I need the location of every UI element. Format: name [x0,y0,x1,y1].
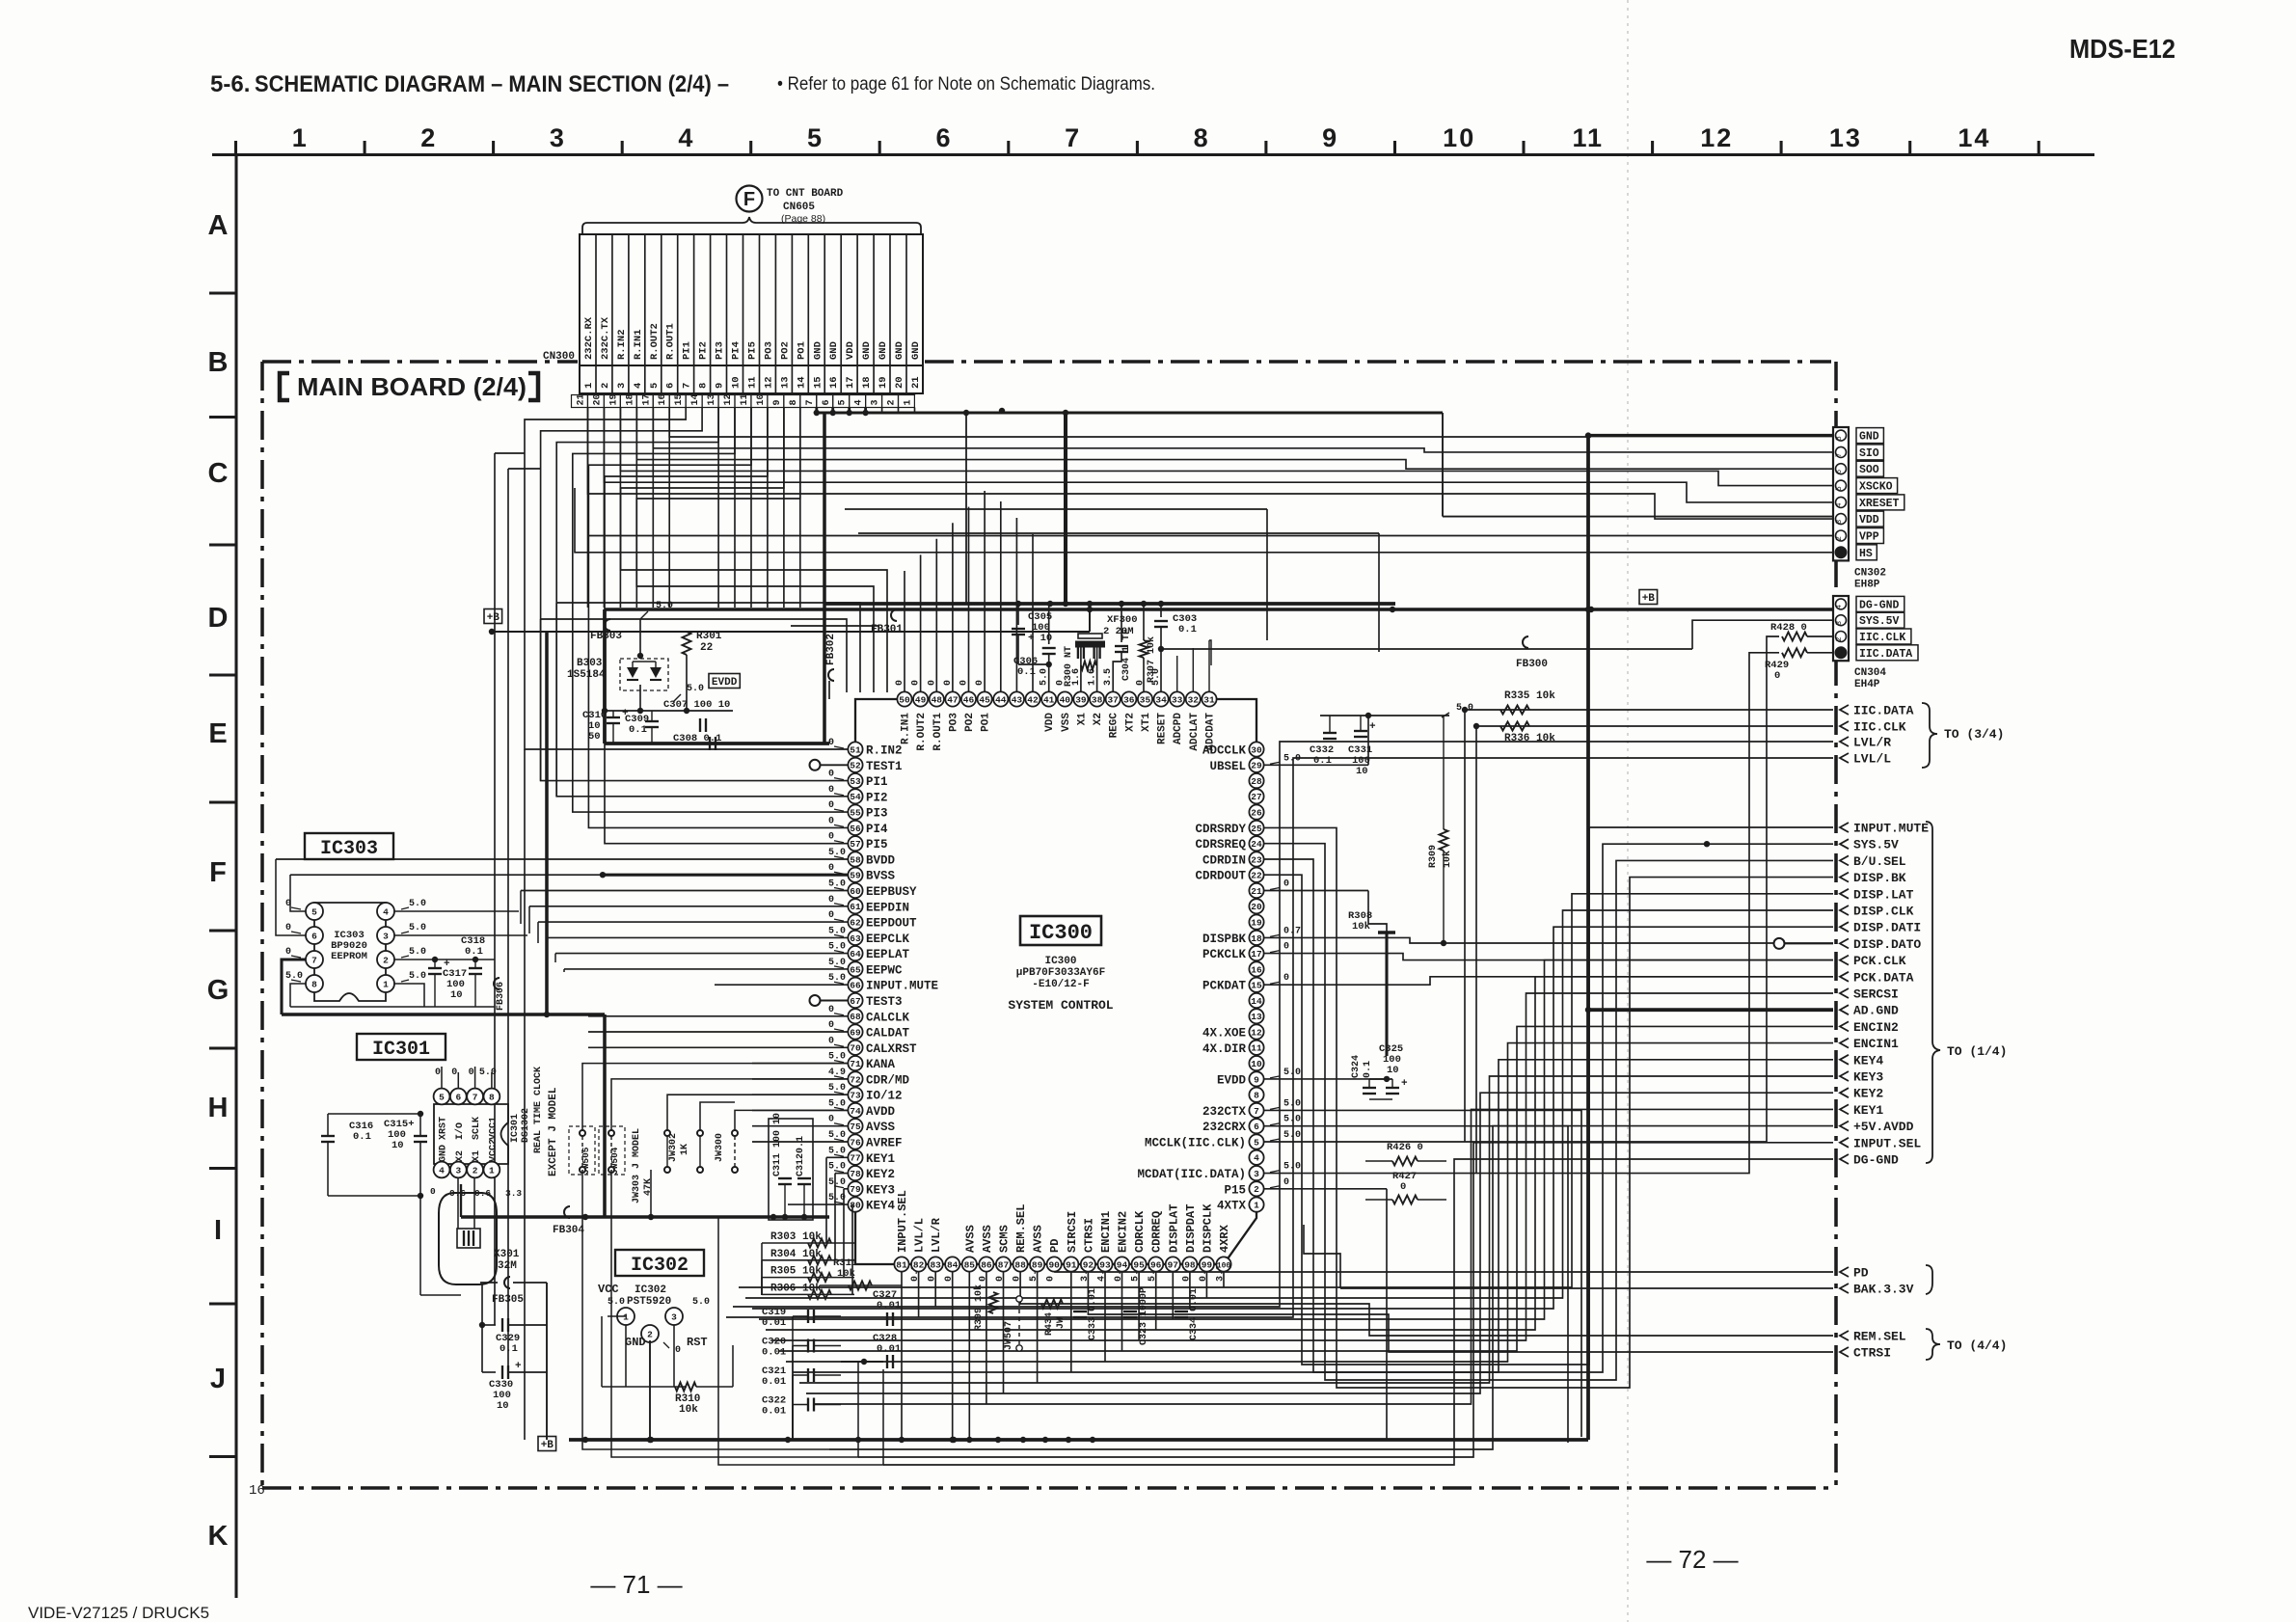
svg-text:71: 71 [850,1059,861,1069]
svg-text:UBSEL: UBSEL [1209,760,1246,773]
svg-text:0: 0 [828,910,834,921]
svg-text:C312: C312 [796,1153,806,1176]
svg-text:CALXRST: CALXRST [866,1042,917,1056]
svg-text:C311 100 10: C311 100 10 [772,1113,783,1176]
svg-text:7: 7 [1835,452,1844,457]
svg-text:4X.XOE: 4X.XOE [1202,1027,1246,1041]
svg-text:CDRCLK: CDRCLK [1133,1210,1147,1253]
svg-text:+: + [515,1361,522,1372]
svg-text:17: 17 [845,376,856,389]
svg-text:42: 42 [1027,694,1039,705]
svg-text:59: 59 [850,871,861,881]
svg-text:PI1: PI1 [866,775,888,789]
svg-text:VDD: VDD [1859,514,1879,527]
svg-text:7: 7 [1254,1106,1259,1117]
svg-text:GND: GND [1859,431,1879,444]
svg-text:83: 83 [930,1259,941,1270]
svg-text:AD.GND: AD.GND [1853,1004,1899,1018]
svg-text:PCKCLK: PCKCLK [1202,948,1247,961]
svg-text:0.1: 0.1 [629,724,647,736]
svg-text:26: 26 [1251,808,1262,819]
svg-text:— 71 —: — 71 — [590,1570,682,1599]
svg-text:21: 21 [1251,886,1262,897]
svg-text:R399 10k: R399 10k [973,1284,985,1331]
svg-text:14: 14 [1251,996,1262,1007]
svg-text:21: 21 [910,376,922,389]
svg-text:XRST: XRST [439,1117,449,1140]
svg-text:DISPDAT: DISPDAT [1184,1204,1198,1253]
svg-text:10: 10 [1443,123,1475,152]
svg-text:38: 38 [1092,694,1103,705]
svg-text:0: 0 [469,1068,474,1078]
svg-text:DG-GND: DG-GND [1853,1153,1899,1168]
svg-text:19: 19 [608,393,619,405]
svg-text:51: 51 [850,744,861,755]
svg-text:0: 0 [285,923,291,933]
svg-text:B: B [208,347,229,378]
svg-text:4XTX: 4XTX [1217,1200,1247,1213]
svg-text:10: 10 [731,376,743,389]
svg-text:3: 3 [1835,621,1844,626]
svg-text:12: 12 [1700,123,1733,152]
svg-text:INPUT.SEL: INPUT.SEL [896,1190,909,1253]
svg-text:+5V.AVDD: +5V.AVDD [1853,1120,1914,1134]
svg-text:EEPLAT: EEPLAT [866,948,910,961]
svg-text:EEPDIN: EEPDIN [866,901,909,914]
svg-text:49: 49 [915,694,927,705]
svg-text:76: 76 [850,1137,861,1148]
svg-text:18: 18 [861,376,873,389]
svg-text:VCC1: VCC1 [488,1117,499,1140]
svg-text:0: 0 [1774,670,1780,682]
svg-text:16: 16 [828,376,840,389]
svg-text:4: 4 [678,123,694,152]
svg-text:0: 0 [430,1186,436,1197]
svg-text:IC301: IC301 [510,1114,521,1143]
svg-text:R.OUT2: R.OUT2 [649,323,661,360]
svg-text:+: + [1401,1078,1408,1090]
svg-text:0: 0 [828,1005,834,1015]
svg-text:R309: R309 [1428,845,1439,868]
svg-text:KEY2: KEY2 [866,1168,895,1181]
svg-text:C304 1 TF: C304 1 TF [1121,629,1132,681]
svg-text:EEPWC: EEPWC [866,963,903,977]
svg-text:J: J [210,1364,226,1394]
svg-text:2: 2 [1835,636,1844,641]
svg-text:INPUT.MUTE: INPUT.MUTE [866,980,938,993]
svg-text:5.0: 5.0 [656,601,673,611]
svg-text:88: 88 [1014,1259,1026,1270]
svg-text:19: 19 [1251,918,1262,929]
svg-text:+: + [1369,721,1376,733]
svg-text:IC302: IC302 [631,1255,689,1277]
svg-text:KEY1: KEY1 [866,1152,895,1166]
svg-text:0.01: 0.01 [762,1347,786,1359]
svg-text:AVSS: AVSS [981,1225,994,1253]
svg-text:PO1: PO1 [796,341,807,360]
svg-text:IC303: IC303 [320,838,378,860]
svg-text:GND: GND [625,1336,646,1349]
svg-text:INPUT.SEL: INPUT.SEL [1853,1136,1921,1150]
svg-text:PO1: PO1 [981,713,992,732]
svg-text:0: 0 [828,1115,834,1125]
svg-text:0: 0 [1400,1181,1406,1193]
svg-text:VDD: VDD [845,341,856,360]
svg-text:5: 5 [439,1092,445,1102]
svg-text:14: 14 [690,393,701,405]
svg-text:TO CNT BOARD: TO CNT BOARD [767,188,844,200]
svg-text:PD: PD [1048,1239,1062,1253]
svg-text:ENCIN2: ENCIN2 [1853,1020,1899,1035]
svg-text:R336 10k: R336 10k [1504,733,1555,744]
svg-text:LVL/R: LVL/R [1853,736,1891,750]
svg-text:KEY1: KEY1 [1853,1103,1883,1118]
svg-text:FB302: FB302 [825,634,837,665]
svg-text:50: 50 [899,694,910,705]
svg-text:8: 8 [311,979,317,989]
svg-text:14: 14 [796,376,807,389]
svg-text:7: 7 [682,383,693,389]
svg-text:INPUT.MUTE: INPUT.MUTE [1853,822,1929,836]
svg-text:33: 33 [1172,694,1183,705]
svg-text:REM.SEL: REM.SEL [1014,1204,1028,1253]
svg-text:K: K [208,1521,229,1552]
svg-text:SCMS: SCMS [998,1225,1012,1253]
svg-text:1: 1 [623,1311,629,1322]
svg-text:CDR/MD: CDR/MD [866,1073,910,1087]
svg-text:5.0: 5.0 [409,947,426,958]
svg-text:EVDD: EVDD [712,677,738,689]
svg-text:MDS-E12: MDS-E12 [2069,34,2175,64]
svg-text:IIC.DATA: IIC.DATA [1853,704,1914,718]
svg-text:AVSS: AVSS [866,1121,896,1134]
svg-text:IIC.DATA: IIC.DATA [1859,648,1912,661]
svg-text:JW: JW [1056,1317,1067,1329]
svg-text:3: 3 [671,1311,677,1322]
svg-text:5.0: 5.0 [1283,1068,1301,1078]
svg-text:KEY2: KEY2 [1853,1087,1883,1101]
svg-text:2: 2 [600,383,611,389]
svg-text:8: 8 [1254,1091,1259,1101]
svg-text:EEPCLK: EEPCLK [866,933,910,946]
svg-text:0.1: 0.1 [465,946,483,958]
svg-text:EH4P: EH4P [1854,679,1880,690]
svg-text:12: 12 [1251,1027,1262,1038]
svg-text:DISPBK: DISPBK [1202,933,1247,946]
svg-text:10: 10 [1356,766,1368,777]
svg-text:C: C [208,458,229,489]
svg-text:JW507: JW507 [1004,1321,1014,1350]
svg-text:4X.DIR: 4X.DIR [1202,1042,1247,1056]
svg-text:46: 46 [963,694,975,705]
svg-text:79: 79 [850,1184,861,1195]
svg-text:12: 12 [763,376,774,389]
svg-text:5.0: 5.0 [1283,1115,1301,1125]
svg-text:PI4: PI4 [866,823,888,836]
svg-text:FB305: FB305 [492,1294,524,1306]
svg-text:DISP.DATI: DISP.DATI [1853,921,1921,935]
svg-text:5.0: 5.0 [1283,1162,1301,1173]
svg-text:F: F [209,857,227,888]
svg-text:91: 91 [1066,1259,1077,1270]
svg-text:GND: GND [828,341,840,360]
svg-text:8: 8 [698,383,710,389]
svg-text:10k: 10k [679,1404,698,1416]
svg-text:47K: 47K [643,1178,654,1196]
svg-text:97: 97 [1168,1259,1179,1270]
svg-text:PO2: PO2 [964,713,976,732]
svg-text:BAK.3.3V: BAK.3.3V [1853,1283,1914,1297]
svg-text:37: 37 [1107,694,1119,705]
svg-text:4: 4 [633,383,644,389]
svg-text:0: 0 [828,770,834,780]
svg-text:81: 81 [896,1259,907,1270]
svg-text:TO (3/4): TO (3/4) [1944,727,2004,742]
svg-text:1: 1 [383,979,389,989]
svg-text:X2: X2 [1093,713,1104,725]
svg-text:R300 NT: R300 NT [1064,646,1074,687]
svg-text:KEY4: KEY4 [1853,1053,1883,1068]
svg-text:21: 21 [577,393,587,405]
svg-text:36: 36 [1123,694,1135,705]
svg-text:5.0: 5.0 [409,923,426,933]
svg-text:+B: +B [487,612,500,624]
svg-text:(Page 88): (Page 88) [781,213,825,225]
svg-text:95: 95 [1133,1259,1145,1270]
svg-text:82: 82 [913,1259,925,1270]
svg-text:EH8P: EH8P [1854,579,1880,590]
svg-text:PO3: PO3 [948,713,959,732]
svg-text:KEY3: KEY3 [866,1183,895,1197]
svg-text:SIRCSI: SIRCSI [1066,1211,1079,1253]
svg-text:8: 8 [1194,123,1210,152]
svg-text:CDRSRDY: CDRSRDY [1195,823,1246,836]
svg-text:5: 5 [311,906,317,917]
svg-text:15: 15 [674,393,685,405]
svg-text:9: 9 [715,383,726,389]
svg-text:73: 73 [850,1091,861,1101]
svg-text:DISPLAT: DISPLAT [1167,1204,1180,1253]
svg-text:66: 66 [850,981,861,991]
svg-text:0: 0 [828,816,834,826]
svg-text:DG-GND: DG-GND [1859,599,1900,611]
svg-text:70: 70 [850,1043,861,1054]
svg-text:0: 0 [451,1068,457,1078]
svg-text:8: 8 [1835,436,1844,441]
svg-text:CDRSREQ: CDRSREQ [1195,838,1246,852]
svg-text:TO (4/4): TO (4/4) [1947,1338,2007,1353]
svg-text:RST: RST [687,1336,708,1349]
svg-text:GND: GND [894,341,905,360]
svg-text:0: 0 [675,1345,681,1356]
svg-text:CN304: CN304 [1854,667,1886,679]
svg-text:IIC.CLK: IIC.CLK [1853,720,1906,735]
svg-text:40: 40 [1060,694,1071,705]
svg-text:232CTX: 232CTX [1202,1105,1247,1119]
svg-text:XRESET: XRESET [1859,498,1900,510]
svg-text:2: 2 [1835,536,1844,541]
svg-text:57: 57 [850,839,861,850]
svg-text:ADCPD: ADCPD [1173,713,1184,744]
svg-text:18: 18 [625,393,635,405]
svg-text:CALDAT: CALDAT [866,1027,910,1041]
svg-text:63: 63 [850,933,861,944]
svg-text:R.IN2: R.IN2 [866,744,903,758]
svg-text:0.1: 0.1 [1363,1061,1373,1078]
svg-text:16: 16 [1251,964,1262,975]
svg-text:2: 2 [383,955,389,965]
svg-text:30: 30 [1251,744,1262,755]
svg-text:SYS.5V: SYS.5V [1859,615,1900,628]
svg-text:10: 10 [392,1140,404,1151]
svg-text:PCK.CLK: PCK.CLK [1853,954,1906,968]
svg-text:CTRSI: CTRSI [1082,1218,1095,1253]
svg-text:GND: GND [910,341,922,360]
svg-text:7: 7 [473,1092,478,1102]
svg-text:AVSS: AVSS [963,1225,977,1253]
svg-text:5: 5 [807,123,824,152]
svg-text:53: 53 [850,776,861,787]
svg-text:19: 19 [878,376,889,389]
svg-text:R301: R301 [696,631,722,642]
svg-text:SOO: SOO [1859,464,1879,476]
svg-text:15: 15 [812,376,824,389]
svg-text:5.0: 5.0 [1283,1098,1301,1109]
svg-text:5.0: 5.0 [692,1297,710,1308]
svg-text:3: 3 [1254,1169,1259,1179]
svg-text:232CRX: 232CRX [1202,1121,1247,1134]
svg-text:0: 0 [1283,1177,1289,1188]
svg-text:3: 3 [616,383,628,389]
svg-text:32M: 32M [498,1260,517,1272]
svg-text:EEPDOUT: EEPDOUT [866,917,917,931]
svg-text:10k: 10k [837,1268,855,1280]
svg-text:PST5920: PST5920 [627,1296,671,1308]
svg-text:PI2: PI2 [698,341,710,360]
svg-text:5.0: 5.0 [409,971,426,982]
svg-text:48: 48 [932,694,943,705]
svg-text:G: G [207,975,230,1006]
svg-text:0.1: 0.1 [796,1136,806,1153]
svg-text:9: 9 [772,399,783,405]
svg-text:F: F [743,189,755,210]
svg-text:96: 96 [1150,1259,1162,1270]
svg-text:22: 22 [1251,871,1262,881]
svg-text:11: 11 [747,376,759,389]
svg-text:REM.SEL: REM.SEL [1853,1330,1906,1344]
svg-text:IC302: IC302 [635,1284,666,1296]
svg-text:SCHEMATIC DIAGRAM – MAIN SECTI: SCHEMATIC DIAGRAM – MAIN SECTION (2/4) – [255,71,729,97]
svg-text:C307 100 10: C307 100 10 [663,699,730,711]
svg-text:0: 0 [1283,879,1289,890]
svg-text:0: 0 [1283,973,1289,984]
svg-text:72: 72 [850,1074,861,1085]
svg-text:20: 20 [1251,902,1262,912]
svg-text:ADCCLK: ADCCLK [1202,744,1247,758]
svg-text:56: 56 [850,824,861,834]
svg-text:0.01: 0.01 [877,1343,901,1355]
svg-text:KANA: KANA [866,1058,896,1071]
svg-text:SERCSI: SERCSI [1853,987,1899,1002]
svg-text:1: 1 [1254,1201,1259,1211]
svg-text:5: 5 [1254,1137,1259,1148]
svg-text:I/O: I/O [454,1122,466,1140]
svg-text:3: 3 [455,1165,461,1176]
svg-text:6: 6 [1835,470,1844,474]
svg-text:C334 0.01: C334 0.01 [1189,1288,1200,1340]
svg-text:VDD: VDD [1044,713,1056,732]
svg-text:6: 6 [822,399,832,405]
svg-text:5.0: 5.0 [687,684,704,694]
svg-text:MAIN BOARD (2/4): MAIN BOARD (2/4) [297,372,527,401]
svg-text:8: 8 [789,399,799,405]
svg-text:R434: R434 [1044,1312,1055,1336]
svg-text:39: 39 [1075,694,1087,705]
svg-text:6: 6 [665,383,677,389]
svg-text:232C.TX: 232C.TX [600,316,611,360]
svg-text:CDRREQ: CDRREQ [1150,1211,1164,1253]
svg-text:EXCEPT J MODEL: EXCEPT J MODEL [548,1087,559,1176]
svg-text:CN605: CN605 [783,202,815,213]
svg-text:R428 0: R428 0 [1770,622,1807,634]
svg-text:IO/12: IO/12 [866,1090,903,1103]
svg-text:58: 58 [850,854,861,865]
svg-text:R.OUT1: R.OUT1 [665,323,677,360]
svg-text:4: 4 [1254,1153,1259,1164]
svg-text:6: 6 [935,123,952,152]
svg-text:67: 67 [850,996,861,1007]
svg-text:9: 9 [1254,1074,1259,1085]
svg-text:27: 27 [1251,792,1262,802]
svg-text:R.IN2: R.IN2 [616,329,628,360]
svg-text:X2: X2 [455,1150,466,1162]
svg-text:SCLK: SCLK [472,1117,482,1140]
svg-text:28: 28 [1251,776,1262,787]
svg-text:8: 8 [489,1092,495,1102]
svg-text:HS: HS [1859,548,1873,560]
svg-text:XT2: XT2 [1124,713,1136,732]
svg-text:C323 1000P: C323 1000P [1139,1287,1149,1345]
svg-text:0: 0 [828,832,834,843]
svg-text:20: 20 [894,376,905,389]
svg-text:ENCIN2: ENCIN2 [1117,1211,1130,1253]
svg-text:MCDAT(IIC.DATA): MCDAT(IIC.DATA) [1137,1168,1246,1181]
svg-text:10: 10 [497,1400,509,1412]
svg-text:61: 61 [850,902,861,912]
svg-text:17: 17 [641,393,652,405]
svg-text:89: 89 [1032,1259,1043,1270]
svg-text:23: 23 [1251,854,1262,865]
svg-text:92: 92 [1083,1259,1094,1270]
svg-text:77: 77 [850,1153,861,1164]
svg-text:10: 10 [1251,1059,1262,1069]
svg-text:20: 20 [593,393,604,405]
svg-text:4: 4 [1835,605,1844,609]
svg-text:0: 0 [828,1036,834,1046]
svg-text:15: 15 [1251,981,1262,991]
svg-text:CDRDIN: CDRDIN [1202,854,1246,868]
svg-text:SIO: SIO [1859,447,1879,460]
svg-text:6: 6 [311,931,317,941]
svg-text:84: 84 [947,1259,959,1270]
svg-text:ADCLAT: ADCLAT [1189,713,1201,751]
svg-text:4: 4 [1835,502,1844,507]
svg-text:LVL/L: LVL/L [1853,752,1891,767]
svg-text:E: E [208,718,227,749]
svg-text:5.0: 5.0 [608,1297,625,1308]
svg-text:TEST1: TEST1 [866,760,903,773]
svg-text:10: 10 [756,393,767,405]
